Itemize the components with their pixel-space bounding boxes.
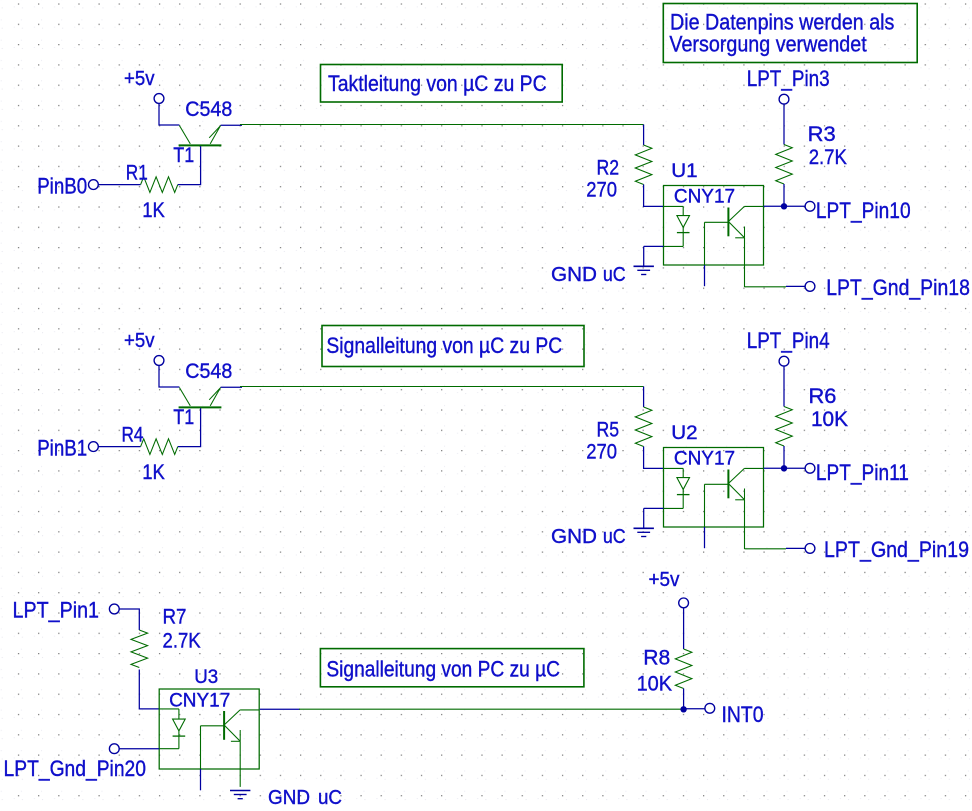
svg-text:LPT_Pin1: LPT_Pin1 [13, 598, 100, 623]
label 1K [142, 199, 165, 222]
svg-text:R5: R5 [597, 419, 620, 442]
svg-text:T1: T1 [173, 144, 194, 167]
label CNY17 (U1) [674, 186, 735, 207]
wire T1 emitter stub (row 2) [221, 386, 242, 388]
note box: Die Datenpins werden als Versorgung verwendet [663, 4, 917, 63]
label GND uC (row 1) [551, 264, 626, 286]
label 1K [142, 461, 165, 484]
wire R2 to U1 anode [644, 185, 684, 207]
svg-text:C548: C548 [185, 360, 232, 383]
power +5v pin (row 3) [679, 598, 689, 608]
phototransistor inside U3 [224, 710, 240, 741]
node LPT_Gnd_Pin20 [4, 744, 147, 781]
wire R8 to INT0 junction [683, 689, 685, 708]
note box: Taktleitung von uC zu PC [321, 65, 563, 103]
wire R4 to T1 base [178, 408, 201, 446]
power +5v label (row 2) [124, 330, 155, 352]
label R5 [597, 419, 620, 442]
svg-text:2.7K: 2.7K [163, 629, 201, 652]
svg-text:1K: 1K [142, 461, 165, 484]
svg-text:Taktleitung von µC zu PC: Taktleitung von µC zu PC [328, 71, 547, 96]
junction (row 1) [781, 203, 787, 209]
label 270 [586, 441, 617, 464]
wire R3 to junction [783, 184, 785, 204]
svg-text:R6: R6 [809, 385, 837, 408]
svg-text:uC: uC [318, 787, 342, 809]
node LPT_Pin1 [13, 598, 120, 623]
label CNY17 (U3) [169, 690, 230, 711]
node LPT_Pin10 [805, 198, 911, 223]
wire T1 emitter stub (row 1) [221, 124, 242, 126]
label GND uC (row 3) [268, 787, 342, 809]
phototransistor inside U1 [728, 206, 744, 237]
label R8 [643, 647, 670, 670]
power +5v label (row 3) [649, 569, 680, 591]
label R2 [597, 157, 620, 180]
svg-text:CNY17: CNY17 [674, 448, 735, 469]
transistor T1 C548 (row 2) [179, 387, 222, 407]
svg-text:Signalleitung von PC zu µC: Signalleitung von PC zu µC [326, 656, 560, 681]
svg-text:R3: R3 [808, 123, 836, 146]
node LPT_Pin11 [805, 460, 909, 485]
wire +5v to T1 collector (row 2) [159, 365, 179, 387]
label R6 [809, 385, 837, 408]
label T1 (row 1) [173, 144, 194, 167]
optocoupler U3 CNY17 box [159, 689, 259, 769]
resistor R3 (2.7K) [776, 145, 793, 185]
label R1 [126, 161, 148, 184]
svg-text:CNY17: CNY17 [674, 186, 735, 207]
node INT0 [705, 702, 764, 727]
svg-text:INT0: INT0 [722, 702, 764, 727]
svg-text:LPT_Pin10: LPT_Pin10 [816, 198, 911, 223]
resistor R8 (10K) [675, 649, 692, 689]
svg-text:uC: uC [603, 264, 626, 286]
wire U2 collector to junction [744, 467, 805, 469]
node LPT_Pin4 [747, 328, 830, 366]
label R3 [808, 123, 836, 146]
svg-text:LPT_Pin4: LPT_Pin4 [747, 328, 830, 353]
wire U3 emitter to ground [239, 741, 241, 787]
svg-text:LPT_Pin11: LPT_Pin11 [816, 460, 909, 485]
wire drop to R2 [643, 125, 645, 146]
wire R5 to U2 anode [644, 447, 684, 469]
svg-text:R8: R8 [643, 647, 670, 670]
LED inside U3 [159, 709, 185, 749]
U2 base lead stub [705, 484, 729, 548]
svg-text:PinB0: PinB0 [37, 173, 87, 198]
wire +5v to R8 [683, 608, 685, 649]
label C548 (row 1) [185, 98, 232, 121]
svg-text:U1: U1 [671, 161, 697, 182]
svg-text:270: 270 [586, 441, 617, 464]
svg-text:+5v: +5v [124, 330, 155, 352]
svg-text:C548: C548 [185, 98, 232, 121]
transistor T1 C548 (row 1) [179, 125, 222, 145]
LED inside U1 [664, 206, 690, 246]
label U1 [671, 161, 697, 182]
label U3 [194, 667, 218, 688]
svg-text:LPT_Pin3: LPT_Pin3 [747, 66, 830, 91]
ground GND uC (row 1) [634, 266, 654, 274]
resistor R5 (270) [635, 407, 652, 447]
resistor R4 (1K) [141, 439, 178, 455]
label GND uC (row 2) [551, 526, 626, 548]
svg-text:uC: uC [603, 526, 626, 548]
power +5v pin (row 2) [154, 356, 164, 366]
power +5v pin (row 1) [154, 94, 164, 104]
resistor R6 (10K) [776, 407, 793, 447]
wire R6 to junction [783, 446, 785, 466]
svg-text:R7: R7 [163, 605, 187, 628]
resistor R1 (1K) [141, 177, 178, 193]
label U2 [671, 423, 697, 444]
wire drop to R5 [643, 387, 645, 408]
junction INT0 [680, 706, 686, 712]
wire R1 to T1 base [178, 146, 201, 184]
power +5v label (row 1) [124, 68, 155, 90]
label R7 [163, 605, 187, 628]
label R4 [122, 423, 144, 446]
U1 base lead stub [705, 222, 729, 286]
label 10K (R8) [637, 672, 673, 695]
label 2.7K [809, 146, 847, 169]
svg-text:GND: GND [551, 526, 597, 548]
svg-text:R1: R1 [126, 161, 148, 184]
optocoupler U2 CNY17 box [664, 448, 764, 528]
label C548 (row 2) [185, 360, 232, 383]
note box: Signalleitung von PC zu uC [320, 649, 584, 687]
svg-text:CNY17: CNY17 [169, 690, 230, 711]
svg-text:GND: GND [268, 787, 310, 809]
wire LPT_Pin1 to R7 [119, 609, 139, 630]
junction (row 2) [781, 465, 787, 471]
wire U1 cathode to ground (row 1) [644, 246, 664, 266]
label 10K [811, 408, 848, 431]
wire U1 collector to junction [744, 205, 805, 207]
node PinB1 [37, 435, 98, 460]
note box: Signalleitung von uC zu PC [322, 326, 584, 367]
node PinB0 [37, 173, 98, 198]
U3 base lead stub [201, 726, 225, 791]
node LPT_Pin3 [747, 66, 830, 104]
svg-text:2.7K: 2.7K [809, 146, 847, 169]
wire T1 to R5 (net, row 2) [240, 386, 644, 388]
svg-text:R4: R4 [122, 423, 144, 446]
wire LPT_Pin4 to R6 [783, 366, 785, 407]
svg-text:10K: 10K [811, 408, 848, 431]
svg-text:LPT_Gnd_Pin18: LPT_Gnd_Pin18 [826, 275, 970, 300]
optocoupler U1 CNY17 box [664, 186, 764, 266]
svg-text:R2: R2 [597, 157, 620, 180]
svg-text:GND: GND [551, 264, 597, 286]
svg-text:PinB1: PinB1 [37, 435, 87, 460]
svg-text:+5v: +5v [649, 569, 680, 591]
svg-text:Signalleitung von µC zu PC: Signalleitung von µC zu PC [326, 333, 562, 358]
svg-text:10K: 10K [637, 672, 673, 695]
LED inside U2 [664, 468, 690, 508]
phototransistor inside U2 [728, 468, 744, 499]
wire U2 emitter to LPT_Gnd_Pin19 [745, 500, 806, 549]
wire R7 to U3 anode [139, 670, 179, 709]
svg-text:270: 270 [586, 179, 617, 202]
svg-text:U3: U3 [194, 667, 218, 688]
label 270 [586, 179, 617, 202]
label CNY17 (U2) [674, 448, 735, 469]
wire T1 to R2 (net, row 1) [240, 124, 644, 126]
wire PinB1 to R4 [98, 446, 140, 448]
node LPT_Gnd_Pin19 [805, 537, 969, 562]
wire U3 cathode to LPT_Gnd_Pin20 [119, 748, 159, 750]
svg-text:LPT_Gnd_Pin19: LPT_Gnd_Pin19 [824, 537, 969, 562]
svg-text:1K: 1K [142, 199, 165, 222]
wire U1 emitter to LPT_Gnd_Pin18 [745, 238, 806, 287]
svg-text:Versorgung verwendet: Versorgung verwendet [669, 32, 866, 57]
ground GND uC (row 3) [230, 791, 250, 799]
svg-text:+5v: +5v [124, 68, 155, 90]
wire U2 cathode to ground (row 2) [644, 508, 664, 528]
label T1 (row 2) [173, 406, 194, 429]
wire LPT_Pin3 to R3 [783, 104, 785, 145]
node LPT_Gnd_Pin18 [805, 275, 970, 300]
resistor R2 (270) [635, 145, 652, 185]
ground GND uC (row 2) [634, 528, 654, 536]
wire +5v to T1 collector (row 1) [159, 103, 179, 125]
svg-text:U2: U2 [671, 423, 697, 444]
wire junction to INT0 pin [684, 708, 706, 710]
svg-text:LPT_Gnd_Pin20: LPT_Gnd_Pin20 [4, 756, 147, 781]
wire PinB0 to R1 [98, 184, 140, 186]
wire U3 collector to INT0 junction [240, 708, 683, 711]
resistor R7 (2.7K) [131, 630, 148, 668]
svg-text:T1: T1 [173, 406, 194, 429]
label 2.7K (R7) [163, 629, 201, 652]
